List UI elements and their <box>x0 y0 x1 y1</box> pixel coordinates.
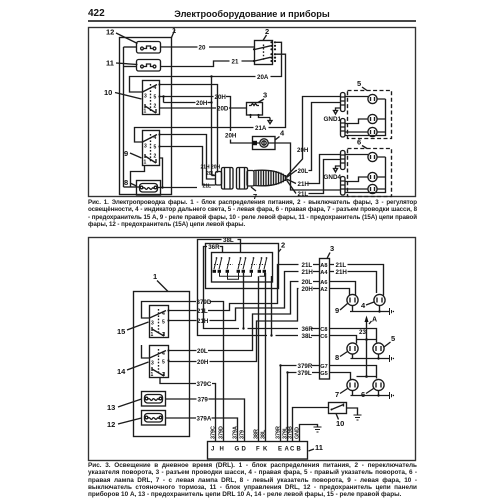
wire 379L label row <box>286 370 319 377</box>
svg-text:E: E <box>278 447 282 453</box>
return bus of headlamp 6 <box>345 157 386 193</box>
parking brake switch 10 <box>329 403 347 429</box>
right headlamp lamp 4 <box>361 294 385 310</box>
right headlamp 6 : connector strip upper <box>341 151 346 170</box>
svg-text:379C: 379C <box>210 426 216 439</box>
fuse F12 (left headlamp fuse) <box>106 28 161 54</box>
svg-text:1: 1 <box>144 109 147 115</box>
svg-text:20L: 20L <box>298 168 309 175</box>
svg-text:5: 5 <box>154 145 157 151</box>
wire 379 (fuse 13 to DRL module pin D) <box>166 397 245 442</box>
wire 20L right (to left headlamp 9) <box>330 282 356 296</box>
ground bus of turn lamps <box>351 354 395 362</box>
svg-text:21H: 21H <box>302 269 314 276</box>
svg-text:15: 15 <box>117 327 125 336</box>
ground at regulator 3 <box>268 118 272 124</box>
wire 379A (fuse 12 to DRL module pin G) <box>166 416 238 442</box>
lamp (position) of headlamp 6 <box>345 184 386 193</box>
wire drop from 20A line to chassis connector bundle <box>211 77 213 176</box>
svg-text:2: 2 <box>162 372 165 378</box>
ground GND1 <box>324 108 342 123</box>
svg-text:A: A <box>285 447 290 453</box>
turn switch contacts <box>213 257 268 279</box>
header rule <box>88 20 416 22</box>
svg-text:1: 1 <box>151 372 154 378</box>
svg-text:38L: 38L <box>223 237 234 244</box>
wire 379L to left DRL lamp 7 <box>330 373 351 380</box>
svg-text:12: 12 <box>107 420 115 429</box>
caption of figure 3 <box>88 462 417 498</box>
svg-text:3: 3 <box>151 321 154 327</box>
turn signal switch assembly 2 <box>206 241 286 289</box>
wire 379R to right DRL lamp 6 <box>330 366 377 379</box>
wire 379R vertical to DRL module pin E <box>280 366 282 442</box>
svg-text:5: 5 <box>154 95 157 101</box>
connector 7 fan-out wire 20H <box>287 97 341 177</box>
relay 14 (left headlamp relay) <box>117 346 170 379</box>
connector 7 fan-out wire 20L <box>287 103 341 178</box>
svg-text:21H: 21H <box>201 165 211 171</box>
svg-text:36R: 36R <box>208 244 220 251</box>
svg-text:GND4: GND4 <box>324 174 342 181</box>
svg-text:4: 4 <box>162 311 165 317</box>
wire from bus to fuse 12 <box>124 46 137 48</box>
svg-text:9: 9 <box>124 149 128 158</box>
svg-text:10: 10 <box>104 88 112 97</box>
lamp (high beam) of headlamp 6 <box>345 152 386 161</box>
wire 20L (relay 14 pin 4 to connector 3) <box>169 279 320 355</box>
svg-text:2: 2 <box>154 154 157 160</box>
left headlamp lamp 9 <box>335 294 358 315</box>
wire 379L vertical to DRL module pin A <box>287 373 289 442</box>
ground GND4 <box>324 166 342 181</box>
wire from bus to fuse 11 <box>124 66 137 68</box>
svg-text:4: 4 <box>154 85 157 91</box>
svg-text:379C: 379C <box>197 381 212 388</box>
fuse 12 (instrument panel circuit fuse 10A) <box>107 411 166 430</box>
wire 20L (inner rail to connector bundle) <box>164 100 212 107</box>
svg-text:2: 2 <box>265 27 269 36</box>
svg-text:9: 9 <box>335 306 339 315</box>
wire 21H (relay 9 pin 4 to connector bundle) <box>160 135 216 180</box>
node A arrow <box>365 316 378 340</box>
svg-text:3: 3 <box>263 91 267 100</box>
lamp (low beam) of headlamp 6 <box>345 172 386 181</box>
left headlamp 5 : connector strip lower <box>341 119 346 138</box>
svg-text:5: 5 <box>162 320 165 326</box>
svg-text:GND1: GND1 <box>324 116 342 123</box>
relay 14 feed stub <box>142 345 150 358</box>
wire 379C (relay 14 to DRL module pin J) <box>160 378 216 442</box>
svg-text:1: 1 <box>151 332 154 338</box>
svg-text:4: 4 <box>162 351 165 357</box>
svg-text:J: J <box>211 447 214 453</box>
svg-text:A: A <box>372 317 377 324</box>
relay 10 (left headlamp relay) <box>104 81 161 115</box>
wire fuse 8 to relay 9 pin 2 <box>158 158 163 188</box>
wire 38R (switch to DRL module pin F) <box>258 276 260 441</box>
svg-text:H: H <box>220 447 224 453</box>
wire 379R label row <box>279 363 319 370</box>
svg-text:K: K <box>263 447 268 453</box>
right headlamp 6 : connector strip lower <box>341 177 346 196</box>
wire 23 continues to DRL lamps <box>366 340 368 377</box>
svg-text:21L: 21L <box>302 262 313 269</box>
svg-text:379B: 379B <box>287 426 293 439</box>
svg-text:10: 10 <box>336 419 344 428</box>
svg-text:20L: 20L <box>302 279 313 286</box>
wire 21L (relay 9 pin 5 to connector bundle) <box>160 147 216 186</box>
svg-text:20H: 20H <box>297 147 309 154</box>
svg-text:21L: 21L <box>197 308 208 315</box>
switch output drop to 36R row <box>243 273 245 329</box>
svg-text:20: 20 <box>199 45 206 52</box>
ground at brake switch <box>347 408 362 420</box>
svg-text:A6: A6 <box>320 280 327 286</box>
svg-text:379A: 379A <box>232 426 238 439</box>
wire 36R (switch top loop to connector C8) <box>204 244 320 333</box>
svg-text:4: 4 <box>280 129 285 138</box>
ground bus of DRL lamps <box>351 391 395 399</box>
svg-text:379: 379 <box>239 430 245 439</box>
svg-text:4: 4 <box>154 135 157 141</box>
wire 38L to left turn lamp 8 <box>330 336 357 344</box>
svg-text:A8: A8 <box>320 263 327 269</box>
svg-text:F: F <box>256 447 260 453</box>
junction at 20A / bundle drop <box>210 75 212 77</box>
wire 20H (relay 10 pin 5 to high-beam indicator) <box>160 94 253 143</box>
svg-text:6: 6 <box>357 138 361 147</box>
wire 36R to right turn lamp 5 <box>330 329 377 343</box>
svg-text:C8: C8 <box>320 327 327 333</box>
svg-text:G5: G5 <box>320 371 327 377</box>
svg-text:G: G <box>235 447 240 453</box>
wire from indicator 4 to right headlamp low circuit <box>275 143 340 190</box>
svg-text:379: 379 <box>198 397 209 404</box>
wire 21H right <box>330 269 377 293</box>
headlamp switch 2 <box>253 27 276 65</box>
svg-text:3: 3 <box>330 244 334 253</box>
relay 15 feed loop / wire 379D <box>142 299 224 441</box>
svg-text:8: 8 <box>335 353 339 362</box>
svg-text:A4: A4 <box>320 270 328 276</box>
svg-text:21: 21 <box>232 58 239 65</box>
wire 21 (fuse 11 to switch 2) <box>161 58 255 66</box>
wire 20D (relay 10 pin 2 to leveling regulator 3) <box>160 106 247 113</box>
wire 21A (switch to relay 9 coil feed) <box>135 54 286 142</box>
frame of figure 1 <box>89 28 416 197</box>
left headlamp 5 : connector strip upper <box>341 93 346 112</box>
chassis harness connector 7 <box>216 168 288 202</box>
connector 7 fan-out wire 21L <box>287 160 341 199</box>
frame of figure 3 <box>89 238 416 461</box>
svg-text:2: 2 <box>281 241 285 250</box>
svg-text:20H: 20H <box>196 100 208 107</box>
svg-text:20H: 20H <box>225 133 237 140</box>
wire 38L (switch top loop to connector C6) <box>198 237 320 340</box>
lamp (high beam) of headlamp 5 <box>345 94 386 103</box>
DRL control module 11 <box>208 442 323 460</box>
relay 9 (right headlamp relay) <box>124 131 161 166</box>
svg-text:6: 6 <box>361 390 365 399</box>
svg-text:20H: 20H <box>215 94 227 101</box>
switch output drop to 38L row <box>271 276 273 336</box>
svg-text:13: 13 <box>107 403 115 412</box>
svg-text:1: 1 <box>144 160 147 166</box>
wire 20H (relay 14 pin 5 to connector 3) <box>169 286 320 366</box>
svg-text:B: B <box>297 447 302 453</box>
svg-text:21L: 21L <box>203 184 212 190</box>
svg-text:379A: 379A <box>197 416 212 423</box>
lamp (position) of headlamp 5 <box>345 127 386 136</box>
rotated wire labels above DRL module <box>210 426 300 439</box>
svg-text:20L: 20L <box>206 171 215 177</box>
wire 379B (brake switch to DRL module pin C) <box>293 408 329 442</box>
high beam indicator 4 <box>253 129 286 150</box>
leveling regulator 3 <box>247 91 271 119</box>
svg-text:C: C <box>290 447 295 453</box>
svg-text:20H: 20H <box>197 359 209 366</box>
fuse F11 (right headlamp fuse) <box>106 59 161 72</box>
svg-text:11: 11 <box>106 59 114 68</box>
page title <box>88 9 416 19</box>
svg-text:21H: 21H <box>298 181 310 188</box>
svg-text:5: 5 <box>391 334 395 343</box>
chassis harness connector 3 <box>320 244 335 379</box>
svg-text:12: 12 <box>106 28 114 37</box>
svg-text:5: 5 <box>357 79 361 88</box>
svg-text:20H: 20H <box>211 165 221 171</box>
svg-text:38R: 38R <box>253 429 259 439</box>
wire 38L (switch to DRL module pin K) <box>265 273 267 441</box>
wire 20H right <box>330 289 350 296</box>
svg-text:4: 4 <box>361 301 366 310</box>
svg-text:3: 3 <box>144 144 147 150</box>
svg-text:36R: 36R <box>302 326 314 333</box>
bundle wire labels <box>201 165 221 190</box>
svg-text:14: 14 <box>117 367 126 376</box>
svg-text:3: 3 <box>144 94 147 100</box>
power distribution box 1 <box>120 26 177 195</box>
lamp (low beam) of headlamp 5 <box>345 114 386 123</box>
svg-text:20L: 20L <box>197 348 208 355</box>
svg-text:1: 1 <box>153 272 157 281</box>
svg-text:21L: 21L <box>298 191 309 198</box>
wire 21H (relay 15 pin 5 to connector 3) <box>169 269 320 325</box>
wire 21L right (connector to right headlamp 4) <box>330 262 384 296</box>
left DRL lamp 7 <box>335 379 358 399</box>
left headlamp 5 : dashed housing <box>348 79 392 139</box>
left turn signal lamp 8 <box>335 343 358 362</box>
wire relay 9 pin 1 to fuse 8 <box>131 166 145 187</box>
svg-text:8: 8 <box>124 178 128 187</box>
svg-text:7: 7 <box>335 390 339 399</box>
wire bus to fuse 8 <box>124 186 140 188</box>
svg-text:20D: 20D <box>217 106 229 113</box>
wire 23 junction <box>357 329 377 341</box>
page number 422 <box>88 8 105 19</box>
svg-text:379R: 379R <box>298 363 313 370</box>
fuse 13 (DRL circuit fuse 10A) <box>107 392 166 413</box>
right turn signal lamp 5 <box>373 334 395 354</box>
right headlamp 6 : dashed housing <box>348 138 392 197</box>
fuse 8 (15A fuse) <box>124 178 161 195</box>
svg-text:20H: 20H <box>302 286 314 293</box>
svg-text:D: D <box>242 447 247 453</box>
wire 21L (relay 15 pin 4 to connector 3) <box>169 262 320 315</box>
svg-text:379D: 379D <box>218 426 224 439</box>
GND wire of DRL module <box>300 425 322 442</box>
svg-text:2: 2 <box>154 104 157 110</box>
wire 20 (fuse 12 to switch 2) <box>161 45 255 52</box>
svg-text:A2: A2 <box>320 287 327 293</box>
svg-text:38L: 38L <box>302 333 313 340</box>
wire 20A (switch to relay 10 coil feed) <box>130 42 282 92</box>
ground bus of headlamps <box>350 306 394 315</box>
right DRL lamp 6 <box>361 379 384 399</box>
svg-text:23: 23 <box>359 329 366 336</box>
svg-text:2: 2 <box>162 332 165 338</box>
svg-text:21H: 21H <box>336 269 348 276</box>
svg-text:5: 5 <box>162 360 165 366</box>
svg-text:11: 11 <box>315 443 323 452</box>
return bus of headlamp 5 <box>345 99 386 136</box>
svg-text:38L: 38L <box>260 429 266 439</box>
svg-text:21A: 21A <box>255 125 267 132</box>
power distribution box 1 (DRL) <box>134 272 190 437</box>
caption of figure 1 <box>88 199 417 229</box>
svg-text:C6: C6 <box>320 334 327 340</box>
wire from relay 10 pin 4 to chassis connector <box>160 85 218 173</box>
relay 15 (right headlamp relay) <box>117 306 170 339</box>
svg-text:G7: G7 <box>320 364 327 370</box>
connector 7 fan-out wire 21H <box>287 155 341 189</box>
svg-text:21L: 21L <box>336 262 347 269</box>
svg-text:379R: 379R <box>275 426 281 439</box>
svg-text:3: 3 <box>151 361 154 367</box>
svg-text:379L: 379L <box>298 370 312 377</box>
bus wire (battery feed inside block 1) <box>123 47 125 187</box>
svg-text:20A: 20A <box>257 74 269 81</box>
